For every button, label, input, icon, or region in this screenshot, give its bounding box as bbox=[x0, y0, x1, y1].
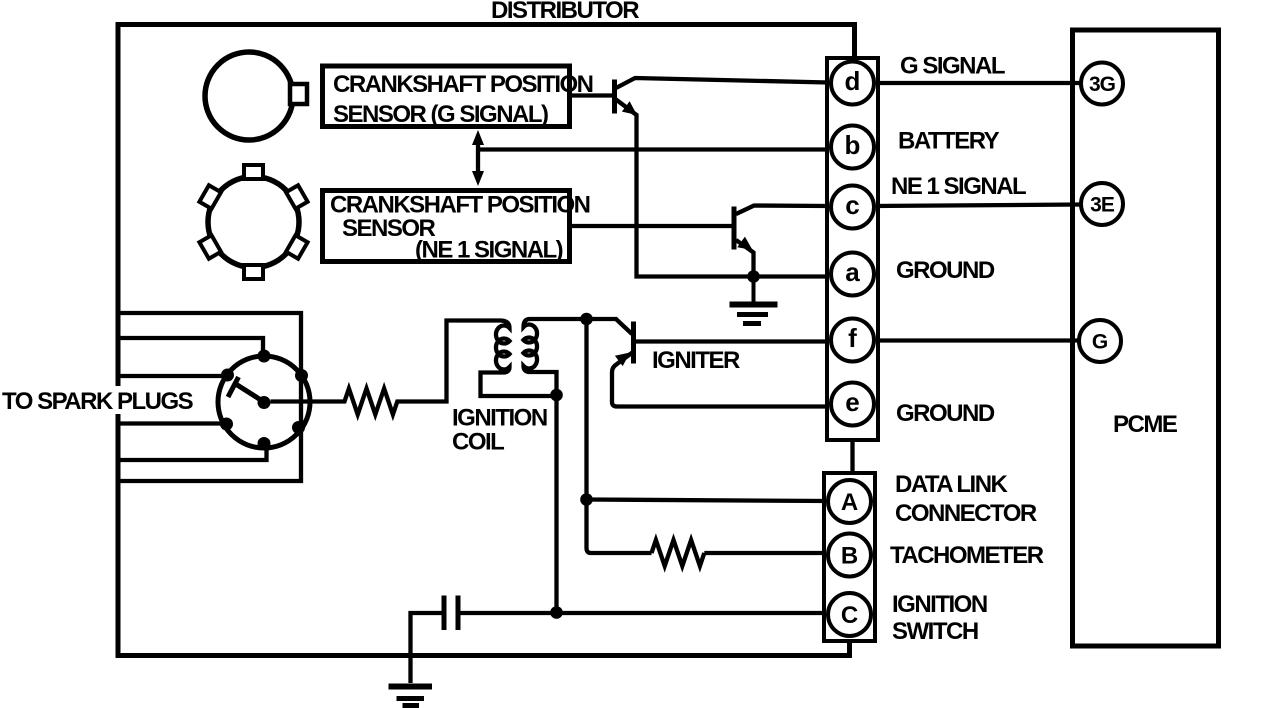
terminal B bbox=[828, 534, 871, 577]
wire: feed from igniter node down to tachometer branch bbox=[587, 319, 652, 553]
cap tower contacts and rotor hub bbox=[220, 350, 308, 451]
rotor arm bbox=[237, 385, 265, 403]
wire: ignition switch line to terminal C bbox=[461, 611, 829, 615]
wire: condenser to chassis ground bbox=[411, 613, 442, 683]
svg-text:G SIGNAL: G SIGNAL bbox=[900, 53, 1005, 80]
svg-text:DATA LINK: DATA LINK bbox=[895, 471, 1009, 498]
svg-text:IGNITION: IGNITION bbox=[452, 405, 547, 432]
bidirectional arrow between G and NE sensors bbox=[476, 140, 480, 177]
Q2 emitter arrow bbox=[737, 237, 752, 250]
NE signal reluctor teeth (6) bbox=[199, 165, 307, 279]
G signal reluctor wheel bbox=[205, 52, 293, 140]
wire: G sensor output to Q1 base bbox=[571, 93, 612, 97]
Q1 emitter arrow bbox=[622, 101, 637, 115]
wire: battery feed to terminal b bbox=[478, 147, 830, 151]
wire: connector C down to enclosure wall bbox=[847, 641, 851, 656]
wire: spark plug lead to lower-left tower bbox=[118, 421, 223, 425]
svg-text:C: C bbox=[841, 602, 858, 629]
wire: igniter Q3 to terminal f bbox=[634, 339, 832, 343]
svg-text:GROUND: GROUND bbox=[896, 257, 995, 284]
svg-text:b: b bbox=[845, 130, 861, 160]
label TO SPARK PLUGS bbox=[0, 386, 204, 414]
crankshaft position sensor (NE 1 signal) box bbox=[323, 191, 570, 262]
crankshaft position sensor (G signal) box bbox=[323, 66, 570, 127]
svg-text:G: G bbox=[1092, 331, 1108, 354]
distributor cap bbox=[218, 356, 310, 448]
capacitor C1 (condenser) plates bbox=[442, 596, 447, 631]
wire: terminal d to PCME 3G (G signal net) bbox=[876, 81, 1081, 85]
terminal C bbox=[828, 593, 871, 636]
svg-text:CRANKSHAFT POSITION: CRANKSHAFT POSITION bbox=[333, 71, 593, 98]
svg-text:IGNITER: IGNITER bbox=[652, 347, 740, 374]
wire: resistor R2 to terminal B bbox=[704, 551, 828, 555]
svg-text:GROUND: GROUND bbox=[896, 400, 995, 427]
terminal b bbox=[831, 126, 874, 169]
wire: Q1 emitter down to ground bus a bbox=[616, 100, 831, 277]
terminal e bbox=[831, 383, 874, 426]
wire: spark plug lead to upper-left tower bbox=[118, 374, 224, 378]
terminal c bbox=[831, 186, 874, 229]
svg-text:BATTERY: BATTERY bbox=[898, 128, 1000, 155]
PCME terminal 3E bbox=[1081, 183, 1123, 225]
svg-text:COIL: COIL bbox=[452, 429, 504, 456]
wire: igniter Q3 emitter loop to terminal e (ground) bbox=[612, 352, 831, 407]
junction: data link tap bbox=[580, 493, 593, 506]
transistor Q1 base bar (G signal pickup) bbox=[612, 80, 617, 114]
PCME terminal 3G bbox=[1081, 63, 1123, 105]
distributor enclosure box (left, top and upper-right walls) bbox=[118, 25, 855, 659]
svg-text:CONNECTOR: CONNECTOR bbox=[895, 500, 1037, 527]
terminal A bbox=[828, 480, 871, 523]
resistor R1 (rotor suppression) with wire from rotor hub to coil secondary bbox=[271, 321, 501, 415]
wire: spark plug lead loop (right towers) bbox=[118, 313, 301, 481]
ignition coil T1 primary winding bbox=[524, 319, 587, 395]
svg-text:c: c bbox=[845, 190, 859, 220]
junction: coil windings common point bbox=[550, 389, 563, 402]
distributor enclosure bottom wall bbox=[116, 641, 850, 656]
svg-text:B: B bbox=[841, 543, 858, 570]
junction: Q2 emitter on ground bus a bbox=[747, 270, 760, 283]
ground symbol (condenser ground) bbox=[389, 684, 433, 690]
PCME module box bbox=[1073, 30, 1219, 646]
svg-text:TO SPARK PLUGS: TO SPARK PLUGS bbox=[2, 388, 194, 415]
junction: coil common on ignition switch wire bbox=[550, 606, 563, 619]
svg-text:A: A bbox=[841, 489, 858, 516]
wire: terminal f to PCME G (igniter signal net) bbox=[876, 338, 1079, 342]
wire: NE sensor output to Q2 base bbox=[570, 224, 732, 228]
ground symbol (pickup ground) bbox=[752, 277, 756, 303]
wire: tap to terminal A (data link) bbox=[587, 500, 829, 502]
vehicle harness connector block J2 bbox=[824, 473, 875, 641]
svg-text:DISTRIBUTOR: DISTRIBUTOR bbox=[491, 0, 639, 24]
svg-text:a: a bbox=[845, 257, 860, 287]
wire: Q1 collector to terminal d (G signal net) bbox=[616, 78, 828, 88]
terminal a bbox=[831, 253, 874, 296]
wire: spark plug lead to bottom tower bbox=[118, 446, 267, 460]
ignition coil T1 secondary winding bbox=[481, 321, 557, 397]
distributor connector block J1 bbox=[827, 58, 878, 440]
Q3 emitter arrow bbox=[615, 353, 630, 367]
resistor R2 (tachometer) bbox=[652, 540, 705, 566]
terminal f bbox=[831, 319, 874, 362]
wire: terminal c to PCME 3E (NE 1 signal net) bbox=[876, 205, 1081, 207]
svg-text:SWITCH: SWITCH bbox=[892, 618, 978, 645]
G signal reluctor tooth bbox=[290, 84, 307, 104]
wire: Q2 collector to terminal c (NE 1 signal net) bbox=[736, 206, 828, 215]
junction: primary feed / igniter collector node bbox=[580, 313, 593, 326]
svg-text:f: f bbox=[848, 323, 857, 353]
svg-text:(NE 1 SIGNAL): (NE 1 SIGNAL) bbox=[415, 237, 563, 264]
svg-text:NE 1 SIGNAL: NE 1 SIGNAL bbox=[891, 173, 1026, 200]
igniter transistor Q3 base bar bbox=[631, 322, 636, 364]
PCME terminal G bbox=[1079, 320, 1121, 362]
wire: spark plug lead to top tower bbox=[118, 338, 263, 356]
svg-text:d: d bbox=[845, 66, 861, 96]
wire: node to igniter Q3 collector bbox=[587, 319, 633, 334]
svg-text:SENSOR (G SIGNAL): SENSOR (G SIGNAL) bbox=[333, 101, 548, 128]
svg-text:IGNITION: IGNITION bbox=[892, 591, 987, 618]
svg-text:PCME: PCME bbox=[1113, 411, 1178, 438]
terminal d bbox=[831, 62, 874, 105]
svg-text:3G: 3G bbox=[1089, 73, 1116, 96]
wire: link between connector blocks bbox=[850, 442, 854, 471]
rotor tip electrode bbox=[228, 377, 239, 397]
svg-text:TACHOMETER: TACHOMETER bbox=[890, 542, 1044, 569]
svg-text:3E: 3E bbox=[1090, 194, 1115, 217]
wire: coil common down to condenser line bbox=[554, 395, 558, 613]
NE signal reluctor wheel bbox=[208, 177, 299, 268]
svg-text:e: e bbox=[845, 387, 859, 417]
transistor Q2 base bar (NE 1 signal pickup) bbox=[732, 207, 737, 250]
wire: Q2 emitter down to ground bus a bbox=[736, 240, 754, 276]
